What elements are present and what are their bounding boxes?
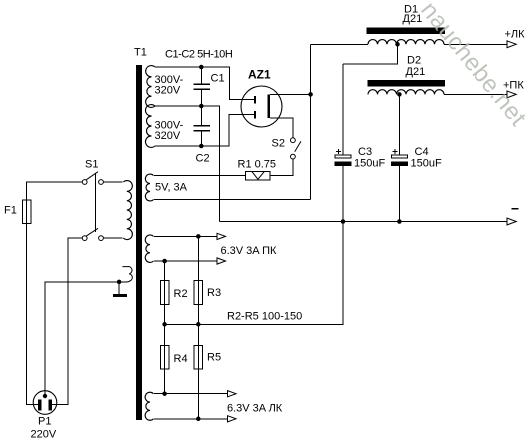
wire: HV2 bottom lead to tube bottom anode bbox=[155, 114, 254, 146]
svg-text:C2: C2 bbox=[196, 153, 210, 165]
T1 5V winding bbox=[145, 174, 153, 201]
svg-text:5V, 3A: 5V, 3A bbox=[155, 182, 188, 194]
node: heater2 bottom / R5 bbox=[196, 417, 201, 422]
resistor R4 bbox=[164, 324, 166, 393]
svg-text:AZ1: AZ1 bbox=[248, 68, 271, 82]
node: heater1 top / R3 bbox=[196, 234, 201, 239]
svg-text:R1 0.75: R1 0.75 bbox=[238, 159, 277, 171]
wire: D1 tap down to C3 bbox=[343, 44, 398, 64]
svg-text:+ЛК: +ЛК bbox=[505, 29, 526, 41]
capacitor C2 bbox=[200, 106, 202, 126]
wire: negative rail bbox=[220, 221, 507, 223]
wire: heater1 top lead bbox=[154, 235, 217, 237]
svg-text:Д21: Д21 bbox=[406, 66, 426, 78]
svg-text:C1-C2 5H-10H: C1-C2 5H-10H bbox=[165, 49, 233, 61]
svg-text:150uF: 150uF bbox=[411, 158, 442, 170]
wire: cathode bottom lead to S2 bbox=[270, 118, 293, 138]
wire: cathode top lead bbox=[270, 93, 311, 95]
node: HV2 bottom / C2 bbox=[199, 144, 204, 149]
node: cathode/D1/D2 junction bbox=[308, 92, 313, 97]
svg-text:T1: T1 bbox=[134, 47, 147, 59]
wire: S1 top-right to primary bbox=[103, 181, 122, 183]
cathode bar bbox=[267, 95, 270, 119]
svg-text:R2-R5 100-150: R2-R5 100-150 bbox=[227, 311, 302, 323]
node: R2/R4 bbox=[162, 322, 167, 327]
svg-text:C4: C4 bbox=[415, 146, 429, 158]
choke D2 core bbox=[368, 80, 446, 86]
anode plate top bbox=[254, 96, 256, 103]
resistor R2 bbox=[164, 261, 166, 324]
plug P1 bbox=[33, 391, 57, 415]
node: screen/ground junction bbox=[117, 280, 122, 285]
svg-text:150uF: 150uF bbox=[354, 158, 385, 170]
svg-text:D2: D2 bbox=[407, 55, 421, 67]
node: R3/R5 bbox=[196, 322, 201, 327]
node: D1 tap bbox=[395, 42, 400, 47]
wire: S2 to R1 bbox=[270, 159, 293, 175]
svg-text:320V: 320V bbox=[155, 85, 181, 97]
svg-text:220V: 220V bbox=[31, 429, 57, 441]
svg-text:P1: P1 bbox=[38, 416, 51, 428]
capacitor C4 bbox=[398, 94, 400, 154]
svg-text:S2: S2 bbox=[272, 138, 285, 150]
wire: heater2 bottom lead bbox=[154, 418, 228, 420]
transformer T1 core bbox=[136, 65, 142, 420]
resistor R3 bbox=[197, 236, 199, 324]
wire: B+ vertical (cathode to chokes) bbox=[310, 44, 312, 199]
svg-text:F1: F1 bbox=[4, 205, 17, 217]
capacitor C3 bbox=[342, 64, 344, 155]
wire: heater1 bottom lead bbox=[154, 260, 217, 262]
wire: S1 bottom-left down to plug right bbox=[52, 238, 82, 404]
screen winding bbox=[122, 266, 132, 281]
node: D2 tap / C4 bbox=[397, 92, 402, 97]
terminal minus bbox=[507, 218, 516, 225]
wire: R1 to 5V winding top bbox=[154, 175, 246, 177]
capacitor C1 bbox=[200, 67, 202, 84]
T1 heater winding 1 bbox=[145, 235, 153, 262]
node: HV midtap / C1-C2 bbox=[199, 104, 204, 109]
wire: heater2 top lead bbox=[154, 393, 228, 395]
terminal +LK bbox=[507, 41, 516, 48]
svg-text:R4: R4 bbox=[174, 353, 188, 365]
svg-text:6.3V 3A ЛК: 6.3V 3A ЛК bbox=[227, 403, 283, 415]
T1 HV winding 1 (300V-320V) bbox=[146, 66, 155, 108]
node: rail / C4 bbox=[397, 219, 402, 224]
wire: D1 to +LK terminal bbox=[444, 43, 507, 45]
svg-text:S1: S1 bbox=[85, 159, 98, 171]
svg-text:R2: R2 bbox=[174, 288, 188, 300]
fuse F1 bbox=[26, 200, 28, 224]
resistor R5 bbox=[197, 324, 199, 419]
wire: R2-R5 common line bbox=[165, 222, 343, 325]
T1 heater winding 2 bbox=[145, 392, 153, 420]
wire: HV midtap lead bbox=[155, 106, 220, 222]
svg-text:320V: 320V bbox=[155, 130, 181, 142]
svg-text:R3: R3 bbox=[207, 287, 221, 299]
node: heater2 top / R4 bbox=[162, 391, 167, 396]
wire: mains from S1 top-left to F1 bbox=[27, 182, 83, 200]
node: heater1 bottom / R2 bbox=[162, 259, 167, 264]
wire: F1 down to plug left bbox=[27, 224, 38, 405]
node: HV1 top / C1 bbox=[199, 65, 204, 70]
terminal +PK bbox=[507, 91, 516, 98]
wire: HV1 top lead to tube top anode bbox=[155, 67, 254, 99]
wire: S1 bottom-right to primary bbox=[103, 237, 122, 239]
svg-text:C1: C1 bbox=[211, 73, 225, 85]
wire: screen winding to plug center bbox=[45, 282, 127, 394]
choke D1 winding bbox=[311, 43, 368, 45]
svg-text:R5: R5 bbox=[207, 352, 221, 364]
svg-text:C3: C3 bbox=[358, 146, 372, 158]
transformer T1 primary winding bbox=[123, 181, 132, 240]
choke D1 core bbox=[367, 28, 446, 34]
T1 HV winding 2 (300V-320V) bbox=[145, 105, 155, 148]
anode plate bottom bbox=[254, 111, 256, 118]
ground bbox=[118, 282, 120, 294]
choke D2 winding bbox=[368, 90, 444, 95]
node: rail / C3 / R2-R5 branch bbox=[341, 219, 346, 224]
svg-text:6.3V 3A ПК: 6.3V 3A ПК bbox=[221, 245, 277, 257]
wire: 5V winding bottom to B+ vertical bbox=[154, 199, 311, 201]
